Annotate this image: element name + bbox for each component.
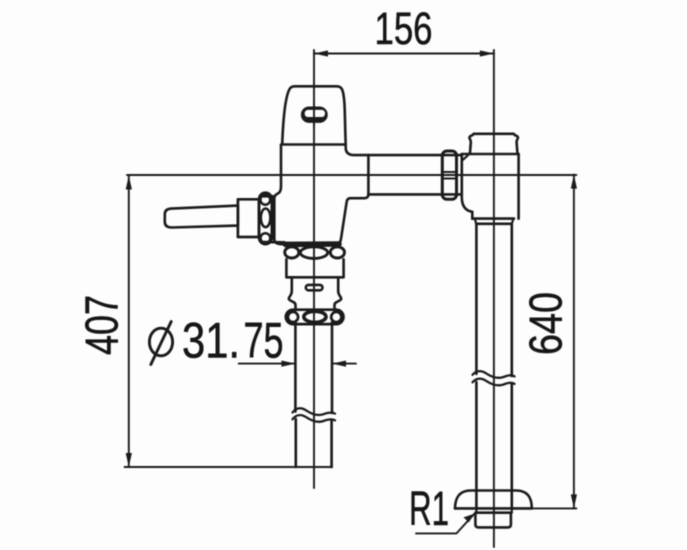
handle nut capsule [259,193,272,245]
lower pipe right edge below break [330,421,333,468]
flange neck stub left [475,508,477,512]
centerline pipe vertical [493,50,495,547]
arrow phi left [281,361,295,367]
centerline horizontal [127,174,576,176]
spud nut inner line 1 [442,171,456,173]
riser pipe right edge lower [510,384,513,508]
elbow bottom flange line 2 [476,223,510,226]
riser pipe right edge upper [510,224,513,376]
seat dark band [286,241,340,247]
arrow 407 bottom [126,453,132,467]
leader R1 [416,514,474,534]
centerline valve vertical [313,50,315,488]
arrow 640 top [571,175,577,189]
riser break wave 2 [473,379,515,386]
spud nut at elbow [442,151,456,199]
row1 right ball [330,247,344,258]
handle boss top edge [264,195,275,198]
valve body left profile [274,145,284,245]
elbow flange left stub [475,219,476,224]
elbow cap [469,134,517,154]
arrow phi right [332,361,346,367]
dimension 156 line [314,53,494,55]
arrow 156 left [314,50,328,56]
elbow flange right stub [512,219,514,224]
arrow 156 right [480,50,494,56]
spud nut inner line 2 [442,177,456,179]
svg-text:407: 407 [76,295,128,355]
elbow chamfer notch [463,155,468,159]
valve body right / outlet top edge [346,145,462,156]
label phi31.75 symbol circle [149,328,172,356]
svg-text:31.: 31. [182,313,240,369]
lower pipe right edge upper [331,322,334,413]
arrow 640 bottom [571,494,577,508]
handle socket block [238,199,259,237]
vacuum breaker slot [306,285,323,290]
lower pipe break wave 2 [293,415,336,422]
elbow cap joint line [462,153,519,156]
leader R1 arrowhead [464,514,475,523]
lower pipe left edge upper [294,322,297,411]
body right profile under pipe [338,194,369,243]
cap oval slot [301,107,328,123]
riser break wave 1 [473,371,515,378]
elbow bottom flange line 1 [472,217,514,220]
outlet pipe bottom edge [368,193,461,196]
svg-text:75: 75 [244,313,284,369]
dimension 640 line [573,175,575,509]
row1 center ellipse [300,247,327,259]
row1 left ball [285,247,299,258]
dimension phi31.75 left line [239,363,296,365]
elbow body [462,154,473,219]
handle nut top ball [260,195,270,205]
centerline over slot [313,103,315,126]
dimension phi31.75 right line [332,363,356,365]
row2 center ellipse bold [304,311,326,322]
valve cap [282,86,346,144]
floor flange base line [455,507,532,510]
lower pipe left edge below break [294,419,297,467]
svg-text:640: 640 [520,292,572,355]
row2 left ball [288,312,298,322]
flange lower block [475,513,511,528]
svg-text:R1: R1 [409,483,449,536]
handle grip [165,206,238,228]
row2 right ball [331,312,341,322]
handle nut middle ellipse [261,209,271,228]
outlet pipe joint vertical [367,155,370,194]
vacuum breaker ball row 2 [286,310,344,324]
riser pipe left edge upper [475,224,478,374]
svg-text:156: 156 [375,3,433,54]
floor flange dome [455,491,532,509]
elbow body right edge [517,154,520,219]
vacuum breaker mid left side [289,277,296,309]
vacuum breaker upper box [286,259,343,277]
vacuum breaker mid right side [335,277,342,309]
cap oval slot interior [305,110,325,117]
lower pipe break wave 1 [293,408,336,415]
flange neck stub right [511,508,513,512]
flange base extension to 640 [532,507,577,509]
dimension 407 line [128,176,130,468]
handle boss bottom edge [264,241,285,244]
pipe end line + 407 extension [125,466,332,468]
arrow 407 top [126,176,132,190]
handle nut bottom ball [261,233,271,243]
label phi31.75 symbol slash [151,322,171,365]
riser pipe left edge lower [475,382,478,508]
